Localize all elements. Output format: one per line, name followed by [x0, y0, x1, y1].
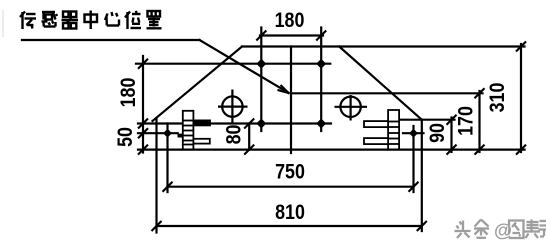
- svg-text:310: 310: [486, 82, 510, 112]
- svg-text:80: 80: [222, 124, 246, 144]
- svg-text:810: 810: [275, 201, 305, 225]
- svg-text:180: 180: [117, 77, 141, 107]
- svg-text:@: @: [494, 220, 512, 241]
- svg-text:90: 90: [426, 123, 450, 143]
- svg-text:750: 750: [275, 160, 305, 184]
- svg-text:170: 170: [454, 106, 478, 136]
- svg-text:180: 180: [275, 9, 305, 33]
- svg-text:50: 50: [114, 127, 138, 147]
